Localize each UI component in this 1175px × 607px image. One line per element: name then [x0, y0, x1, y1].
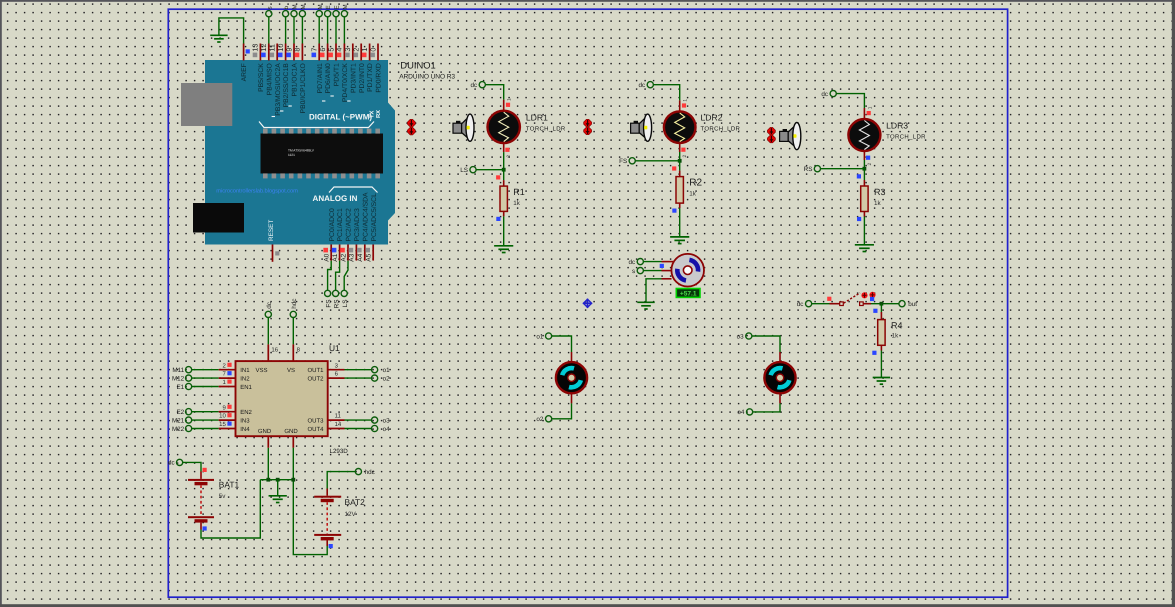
wire E1 to U1: [192, 386, 219, 388]
terminal LS: [341, 290, 347, 296]
svg-text:o3: o3: [383, 418, 391, 425]
node but: [880, 302, 884, 306]
terminal dc (LDR3): [830, 91, 836, 97]
indicator diamond pair: [584, 119, 592, 127]
wire dc to LDR1: [485, 85, 503, 100]
svg-text:A3: A3: [349, 253, 356, 261]
LDR1 top pin: [503, 100, 505, 112]
terminal o2: [546, 416, 552, 422]
svg-text:DUINO1: DUINO1: [400, 60, 435, 71]
terminal dc (VSS supply): [265, 311, 271, 317]
svg-text:16: 16: [271, 346, 278, 353]
torch for LDR2: [634, 121, 638, 124]
wire U1 to o2: [328, 377, 345, 379]
state square: [857, 174, 861, 178]
state square: [496, 217, 500, 221]
terminal FS: [325, 290, 331, 296]
torch for LDR1: [456, 121, 460, 124]
ground symbol (servo): [637, 302, 654, 309]
svg-text:AREF: AREF: [241, 63, 248, 81]
svg-text:A0: A0: [324, 253, 331, 261]
svg-text:M21: M21: [172, 417, 185, 424]
dc motor (left): [556, 362, 587, 393]
svg-text:IN3: IN3: [240, 417, 250, 424]
svg-text:PC1/ADC1: PC1/ADC1: [337, 208, 344, 241]
svg-text:o4: o4: [383, 426, 391, 433]
terminal LS: [470, 167, 476, 173]
svg-text:RESET: RESET: [268, 220, 275, 241]
terminal RS: [814, 166, 820, 172]
switch actuator arrows: [861, 292, 875, 299]
svg-text:PB4/MISO: PB4/MISO: [266, 63, 273, 95]
svg-text:IN2: IN2: [240, 375, 250, 382]
terminal: [316, 11, 322, 17]
terminal M12: [186, 375, 192, 381]
wire R2 to ground: [679, 203, 681, 208]
node: [276, 478, 280, 482]
svg-text:dc: dc: [168, 460, 175, 467]
sheet origin marker: [583, 299, 592, 308]
svg-text:OUT1: OUT1: [307, 367, 324, 374]
wire A1 to RS terminal: [336, 261, 340, 291]
svg-text:but: but: [908, 301, 917, 308]
svg-text:RX: RX: [376, 110, 382, 118]
svg-text:PD4/T0/XCK: PD4/T0/XCK: [342, 63, 349, 102]
torch for LDR3: [783, 129, 787, 132]
svg-text:PC4/ADC4/SDA: PC4/ADC4/SDA: [362, 192, 369, 242]
ground symbol (LDR2): [670, 237, 689, 244]
wire o3 to motor: [752, 336, 780, 352]
svg-text:BAT2: BAT2: [345, 497, 366, 507]
U1 inner pin names: [240, 367, 324, 435]
terminal M11: [186, 367, 192, 373]
svg-text:PD7/AIN1: PD7/AIN1: [317, 63, 324, 93]
state square: [329, 544, 333, 548]
op-chip U1 L293D body: [236, 361, 328, 436]
svg-text:PD5/T1: PD5/T1: [334, 63, 341, 86]
node: [266, 478, 270, 482]
wire LDR1 to divider node: [503, 152, 505, 170]
svg-text:11: 11: [335, 413, 342, 420]
terminal o1: [372, 367, 378, 373]
wire from DUINO1 pin to top terminal: [268, 17, 270, 44]
wire U1 to o1: [328, 369, 345, 371]
svg-text:hdc: hdc: [291, 298, 298, 309]
state square: [203, 468, 207, 472]
wire o1 to motor: [552, 336, 572, 352]
resistor R1: [500, 186, 507, 211]
svg-text:E: E: [325, 5, 332, 9]
state square: [873, 309, 877, 313]
svg-text:dc: dc: [821, 91, 828, 98]
wire BAT1 negative to rail: [200, 523, 202, 530]
svg-text:PB0/ICP1/CLKO: PB0/ICP1/CLKO: [300, 63, 307, 113]
terminal o2: [372, 375, 378, 381]
terminal hdc (BAT2): [355, 469, 361, 475]
battery BAT1: [188, 479, 214, 523]
node: [291, 478, 295, 482]
svg-text:M22: M22: [172, 426, 185, 433]
svg-text:IN1: IN1: [240, 367, 250, 374]
svg-text:TORCH_LDR: TORCH_LDR: [526, 125, 566, 132]
terminal hdc (VS supply): [290, 311, 296, 317]
svg-text:15: 15: [219, 421, 226, 428]
state square: [672, 209, 676, 213]
svg-text:M: M: [342, 4, 349, 9]
terminal s: [637, 268, 643, 274]
svg-text:2: 2: [867, 163, 873, 166]
svg-text:EN1: EN1: [240, 384, 252, 391]
LDR2 top pin: [679, 100, 681, 112]
wire U1 GND left to rail: [267, 436, 269, 448]
wire LDR2 to divider node: [679, 152, 681, 161]
DUINO1 bottom pin name labels: [329, 192, 378, 242]
wire dc to servo: [643, 261, 661, 263]
Arduino Uno DUINO1 board body: [205, 60, 395, 245]
wire from DUINO1 pin to top terminal: [327, 17, 329, 44]
DUINO1 RESET pin stub: [272, 245, 274, 262]
DUINO1 analog pin stubs A0-A5: [331, 245, 373, 261]
svg-text:FS: FS: [325, 300, 332, 308]
svg-text:R3: R3: [874, 187, 886, 197]
DUINO1 top pin name labels: [241, 63, 382, 116]
state square: [872, 351, 876, 355]
svg-text:R2: R2: [689, 178, 702, 189]
wire node to terminal LS: [476, 169, 504, 171]
svg-text:A4: A4: [357, 253, 364, 261]
battery BAT2: [314, 496, 341, 541]
svg-text:VSS: VSS: [255, 367, 267, 374]
terminal o4: [747, 409, 753, 415]
svg-text:RS: RS: [333, 300, 340, 309]
svg-text:1: 1: [507, 98, 513, 101]
svg-text:+57.1: +57.1: [680, 291, 697, 298]
LDR LDR2: [664, 111, 696, 143]
svg-text:PB1/OC1A: PB1/OC1A: [292, 63, 299, 97]
svg-text:12V: 12V: [345, 511, 357, 518]
wire from DUINO1 pin to top terminal: [285, 17, 287, 44]
svg-text:1k: 1k: [874, 200, 882, 207]
wire from DUINO1 pin to top terminal: [343, 17, 345, 44]
state square: [203, 526, 207, 530]
svg-text:o1: o1: [536, 333, 544, 340]
wire M12 to U1: [192, 377, 219, 379]
wire dc to LDR2: [653, 85, 679, 101]
svg-text:PB3/MOSI/OC2A: PB3/MOSI/OC2A: [275, 63, 282, 116]
wire s to servo: [643, 270, 661, 272]
svg-text:1121: 1121: [288, 153, 295, 157]
svg-text:VS: VS: [287, 367, 295, 374]
svg-text:o2: o2: [383, 376, 391, 383]
indicator diamond pair: [767, 127, 775, 135]
svg-text:LS: LS: [460, 167, 468, 174]
svg-text:E: E: [334, 5, 341, 9]
terminal: [283, 11, 289, 17]
svg-text:s: s: [267, 6, 273, 9]
terminal M21: [186, 417, 192, 423]
state square: [827, 297, 831, 301]
wire dc to switch: [812, 303, 830, 305]
svg-text:PC2/ADC2: PC2/ADC2: [346, 208, 353, 241]
wire motor to o2: [571, 393, 573, 404]
terminal: [333, 11, 339, 17]
svg-text:PD6/AIN0: PD6/AIN0: [325, 63, 332, 93]
terminal: [291, 11, 297, 17]
terminal: [341, 11, 347, 17]
LDR LDR1: [488, 111, 520, 143]
svg-text:R4: R4: [891, 321, 903, 331]
svg-text:U1: U1: [329, 343, 340, 353]
svg-text:FS: FS: [619, 158, 627, 165]
wire node to resistor R2: [679, 161, 681, 171]
wire node to R4: [880, 304, 882, 312]
svg-text:o3: o3: [737, 333, 745, 340]
svg-text:PB5/SCK: PB5/SCK: [258, 63, 265, 92]
wire A2 to LS terminal: [344, 261, 348, 291]
terminal FS: [629, 158, 635, 164]
svg-text:M11: M11: [172, 367, 184, 374]
svg-text:8: 8: [293, 48, 302, 52]
svg-text:A5: A5: [366, 253, 373, 261]
svg-text:PD3/INT1: PD3/INT1: [350, 63, 357, 93]
LDR LDR3: [848, 119, 880, 151]
servo motor MOTOR-PWM: [671, 254, 704, 287]
wire from DUINO1 pin to top terminal: [293, 17, 295, 44]
terminal o3: [746, 333, 752, 339]
DUINO1 digital pin numbers 13-0 with logic state squares: [251, 44, 378, 58]
svg-text:o4: o4: [737, 409, 745, 416]
svg-text:LDR1: LDR1: [526, 112, 548, 122]
svg-text:1: 1: [683, 99, 689, 102]
svg-text:PD2/INT0: PD2/INT0: [359, 63, 366, 93]
LDR3 bottom pin: [863, 150, 865, 160]
terminal but: [899, 301, 905, 307]
resistor R3: [861, 186, 868, 212]
state square: [660, 264, 664, 268]
terminal: [325, 11, 331, 17]
svg-text:A1: A1: [332, 253, 339, 261]
wire E2 to U1: [192, 411, 219, 413]
LDR3 top pin: [863, 108, 865, 120]
svg-text:dc: dc: [638, 82, 645, 89]
ground symbol (rail): [269, 496, 287, 503]
state square: [870, 297, 874, 301]
DUINO1 digital bracket: [259, 122, 374, 128]
svg-text:hdc: hdc: [365, 469, 375, 476]
svg-text:1k: 1k: [513, 200, 521, 207]
ground symbol near AREF: [210, 35, 227, 42]
wire R1 to ground: [503, 211, 505, 216]
DUINO1 power jack: [193, 203, 244, 233]
svg-text:PC5/ADC5/SCL: PC5/ADC5/SCL: [371, 193, 378, 242]
state square: [857, 217, 861, 221]
svg-text:dc: dc: [797, 301, 804, 308]
svg-text:PD0/RXD: PD0/RXD: [376, 63, 383, 93]
wire node to resistor R1: [503, 170, 505, 180]
DUINO1 top pin stubs: [244, 44, 378, 61]
terminal E2: [186, 409, 192, 415]
indicator diamond pair: [407, 119, 415, 127]
DUINO1 USB connector: [181, 83, 232, 126]
svg-text:TORCH_LDR: TORCH_LDR: [701, 126, 741, 133]
terminal RS: [333, 290, 339, 296]
wire U1 GND right to rail and BAT2 negative: [292, 436, 294, 448]
svg-text:1k: 1k: [689, 191, 697, 198]
terminal E1: [186, 383, 192, 389]
svg-text:OUT3: OUT3: [307, 417, 324, 424]
wire dc to U1 VSS: [267, 318, 269, 345]
node RS: [863, 167, 867, 171]
DUINO1 analog pin labels A0-A5 with state squares: [323, 248, 372, 262]
LDR1 bottom pin: [503, 142, 505, 152]
svg-text:LS: LS: [342, 300, 349, 308]
svg-text:A2: A2: [340, 253, 347, 261]
svg-text:o1: o1: [383, 367, 391, 374]
terminal o4: [372, 425, 378, 431]
wire dc to BAT1 positive: [183, 462, 201, 471]
ground symbol (LDR1): [494, 246, 513, 253]
DUINO1 AREF state square: [246, 49, 250, 53]
wire A0 to FS terminal: [328, 261, 332, 291]
wire node to terminal FS: [635, 160, 680, 162]
svg-text:OUT2: OUT2: [307, 375, 324, 382]
wire R4 to ground: [880, 345, 882, 350]
wire rail to ground: [277, 480, 279, 496]
svg-text:1: 1: [867, 106, 873, 109]
terminal dc (LDR2): [647, 82, 653, 88]
wire servo to ground: [662, 278, 672, 280]
svg-text:RS: RS: [804, 166, 813, 173]
svg-text:0: 0: [368, 48, 377, 52]
wire from DUINO1 pin to top terminal: [301, 17, 303, 44]
svg-text:M12: M12: [172, 375, 185, 382]
RESET state square: [275, 251, 279, 255]
terminal dc (BAT1): [177, 459, 183, 465]
ground symbol (LDR3): [855, 245, 874, 252]
wire LDR3 to divider node: [863, 160, 865, 169]
svg-text:OUT4: OUT4: [307, 426, 324, 433]
LDR2 bottom pin: [679, 142, 681, 152]
svg-text:dc: dc: [628, 259, 635, 266]
svg-text:E1: E1: [176, 384, 184, 391]
svg-text:2: 2: [506, 155, 512, 158]
wire M11 to U1: [192, 369, 219, 371]
wire from DUINO1 pin to top terminal: [335, 17, 337, 44]
svg-text:PC3/ADC3: PC3/ADC3: [354, 208, 361, 241]
svg-text:R1: R1: [513, 187, 525, 197]
wire M22 to U1: [192, 428, 219, 430]
svg-text:PD1/TXD: PD1/TXD: [367, 63, 374, 92]
svg-text:TORCH_LDR: TORCH_LDR: [886, 133, 926, 140]
dc motor (right): [764, 362, 795, 393]
svg-text:E2: E2: [176, 409, 184, 416]
wire motor to o4: [779, 393, 781, 404]
svg-text:10: 10: [219, 413, 226, 420]
terminal: [299, 11, 305, 17]
state square: [672, 166, 676, 170]
wire node to resistor R3: [863, 169, 865, 180]
svg-text:2: 2: [682, 155, 688, 158]
servo angle display +57.1: [676, 289, 700, 298]
terminal dc (switch): [806, 301, 812, 307]
terminal o1: [546, 333, 552, 339]
svg-text:o2: o2: [536, 416, 544, 423]
svg-text:s: s: [632, 268, 635, 275]
svg-text:microcontrollerslab.blogspot.c: microcontrollerslab.blogspot.com: [216, 187, 298, 194]
wire dc to LDR3: [836, 94, 864, 108]
wire U1 to o4: [328, 428, 345, 430]
ground rail wire: [260, 479, 293, 481]
terminal dc (LDR1): [479, 82, 485, 88]
svg-text:TM ATX5V6489LV: TM ATX5V6489LV: [288, 149, 315, 153]
wire switch to node: [863, 303, 871, 305]
svg-text:M: M: [292, 4, 299, 9]
svg-text:M: M: [317, 4, 324, 9]
svg-text:dc: dc: [470, 82, 477, 89]
resistor R4: [878, 320, 885, 346]
wire from DUINO1 pin to top terminal: [318, 17, 320, 44]
wire hdc to U1 VS: [292, 318, 294, 345]
svg-text:5v: 5v: [219, 493, 227, 500]
svg-text:GND: GND: [284, 428, 298, 435]
wire R3 to ground: [863, 212, 865, 217]
svg-text:ARDUINO UNO R3: ARDUINO UNO R3: [399, 73, 455, 80]
svg-text:L293D: L293D: [330, 448, 349, 455]
DUINO1 PWM tilde marks: [272, 96, 351, 117]
terminal M22: [186, 425, 192, 431]
wire node to terminal RS: [820, 168, 864, 170]
svg-text:dc: dc: [266, 301, 273, 309]
svg-text:LDR2: LDR2: [701, 113, 723, 123]
svg-text:TX: TX: [370, 110, 376, 118]
terminal: [266, 11, 272, 17]
svg-text:ANALOG IN: ANALOG IN: [313, 194, 358, 203]
ground symbol (R4): [873, 378, 890, 385]
svg-text:IN4: IN4: [240, 426, 250, 433]
wire U1 to o3: [328, 419, 345, 421]
svg-text:BAT1: BAT1: [219, 480, 240, 490]
svg-text:LDR3: LDR3: [886, 121, 908, 131]
node FS: [678, 159, 682, 163]
svg-text:PB2/SS/OC1B: PB2/SS/OC1B: [283, 63, 290, 108]
resistor R2: [676, 177, 683, 204]
switch SW1 contacts and blade: [840, 302, 844, 306]
wire AREF to ground: [219, 18, 244, 44]
wire hdc to BAT2 positive: [327, 472, 355, 489]
svg-text:1k: 1k: [892, 333, 900, 340]
state square: [496, 175, 500, 179]
svg-text:EN2: EN2: [240, 409, 252, 416]
svg-text:DIGITAL (~PWM): DIGITAL (~PWM): [309, 113, 372, 122]
DUINO1 analog bracket: [329, 187, 378, 193]
terminal dc (servo): [637, 259, 643, 265]
terminal o3: [372, 417, 378, 423]
DUINO1 ATmega328 IC: [261, 129, 384, 179]
svg-text:14: 14: [335, 421, 342, 428]
svg-text:M: M: [300, 4, 307, 9]
wire M21 to U1: [192, 419, 219, 421]
node LS: [502, 168, 506, 172]
svg-text:GND: GND: [258, 428, 272, 435]
svg-text:PC0/ADC0: PC0/ADC0: [329, 208, 336, 241]
